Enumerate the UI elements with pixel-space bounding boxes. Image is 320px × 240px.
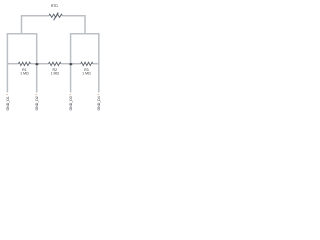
wire row segment node to R2 xyxy=(37,63,49,65)
wire right mid-rail xyxy=(70,33,100,35)
svg-text:GND_D2: GND_D2 xyxy=(35,96,39,110)
RTD arrow xyxy=(54,13,58,20)
svg-text:1 MΩ: 1 MΩ xyxy=(51,71,60,75)
pin tick 1 xyxy=(6,94,8,95)
svg-text:RTD: RTD xyxy=(51,4,59,8)
resistor R3 zigzag xyxy=(81,62,93,65)
wire vertical 1 xyxy=(6,34,8,93)
wire vertical 4 xyxy=(98,34,100,93)
wire row segment R1 to node xyxy=(31,63,37,65)
wire left mid-rail xyxy=(7,33,38,35)
svg-text:1 MΩ: 1 MΩ xyxy=(82,71,91,75)
wire row segment node to R3 xyxy=(71,63,81,65)
wire top rail right segment xyxy=(62,15,85,17)
svg-text:1 MΩ: 1 MΩ xyxy=(20,71,29,75)
junction node at v2/resistor row xyxy=(35,63,38,65)
wire row segment R3 to v4 xyxy=(93,63,99,65)
wire vertical 2 xyxy=(36,34,38,93)
pin tick 2 xyxy=(35,94,37,95)
junction node at v3/resistor row xyxy=(69,63,72,65)
wire vertical from top rail left end down to left mid-rail xyxy=(21,16,23,34)
resistor RTD (variable, zigzag with arrow) xyxy=(49,14,62,17)
wire vertical 3 xyxy=(70,34,72,93)
resistor R2 zigzag xyxy=(49,62,62,65)
svg-text:GND_D3: GND_D3 xyxy=(69,96,73,110)
svg-text:GND_D4: GND_D4 xyxy=(97,96,101,110)
wire row segment left of R1 xyxy=(7,63,18,65)
wire row segment R2 to node xyxy=(61,63,71,65)
wire vertical from top rail right end down to right mid-rail xyxy=(84,16,86,34)
RTD arrowhead xyxy=(57,12,59,14)
resistor R1 zigzag xyxy=(18,62,30,65)
svg-text:GND_D1: GND_D1 xyxy=(6,96,10,110)
pin tick 3 xyxy=(69,94,71,95)
pin tick 4 xyxy=(98,94,100,95)
wire top rail left segment xyxy=(21,15,49,17)
